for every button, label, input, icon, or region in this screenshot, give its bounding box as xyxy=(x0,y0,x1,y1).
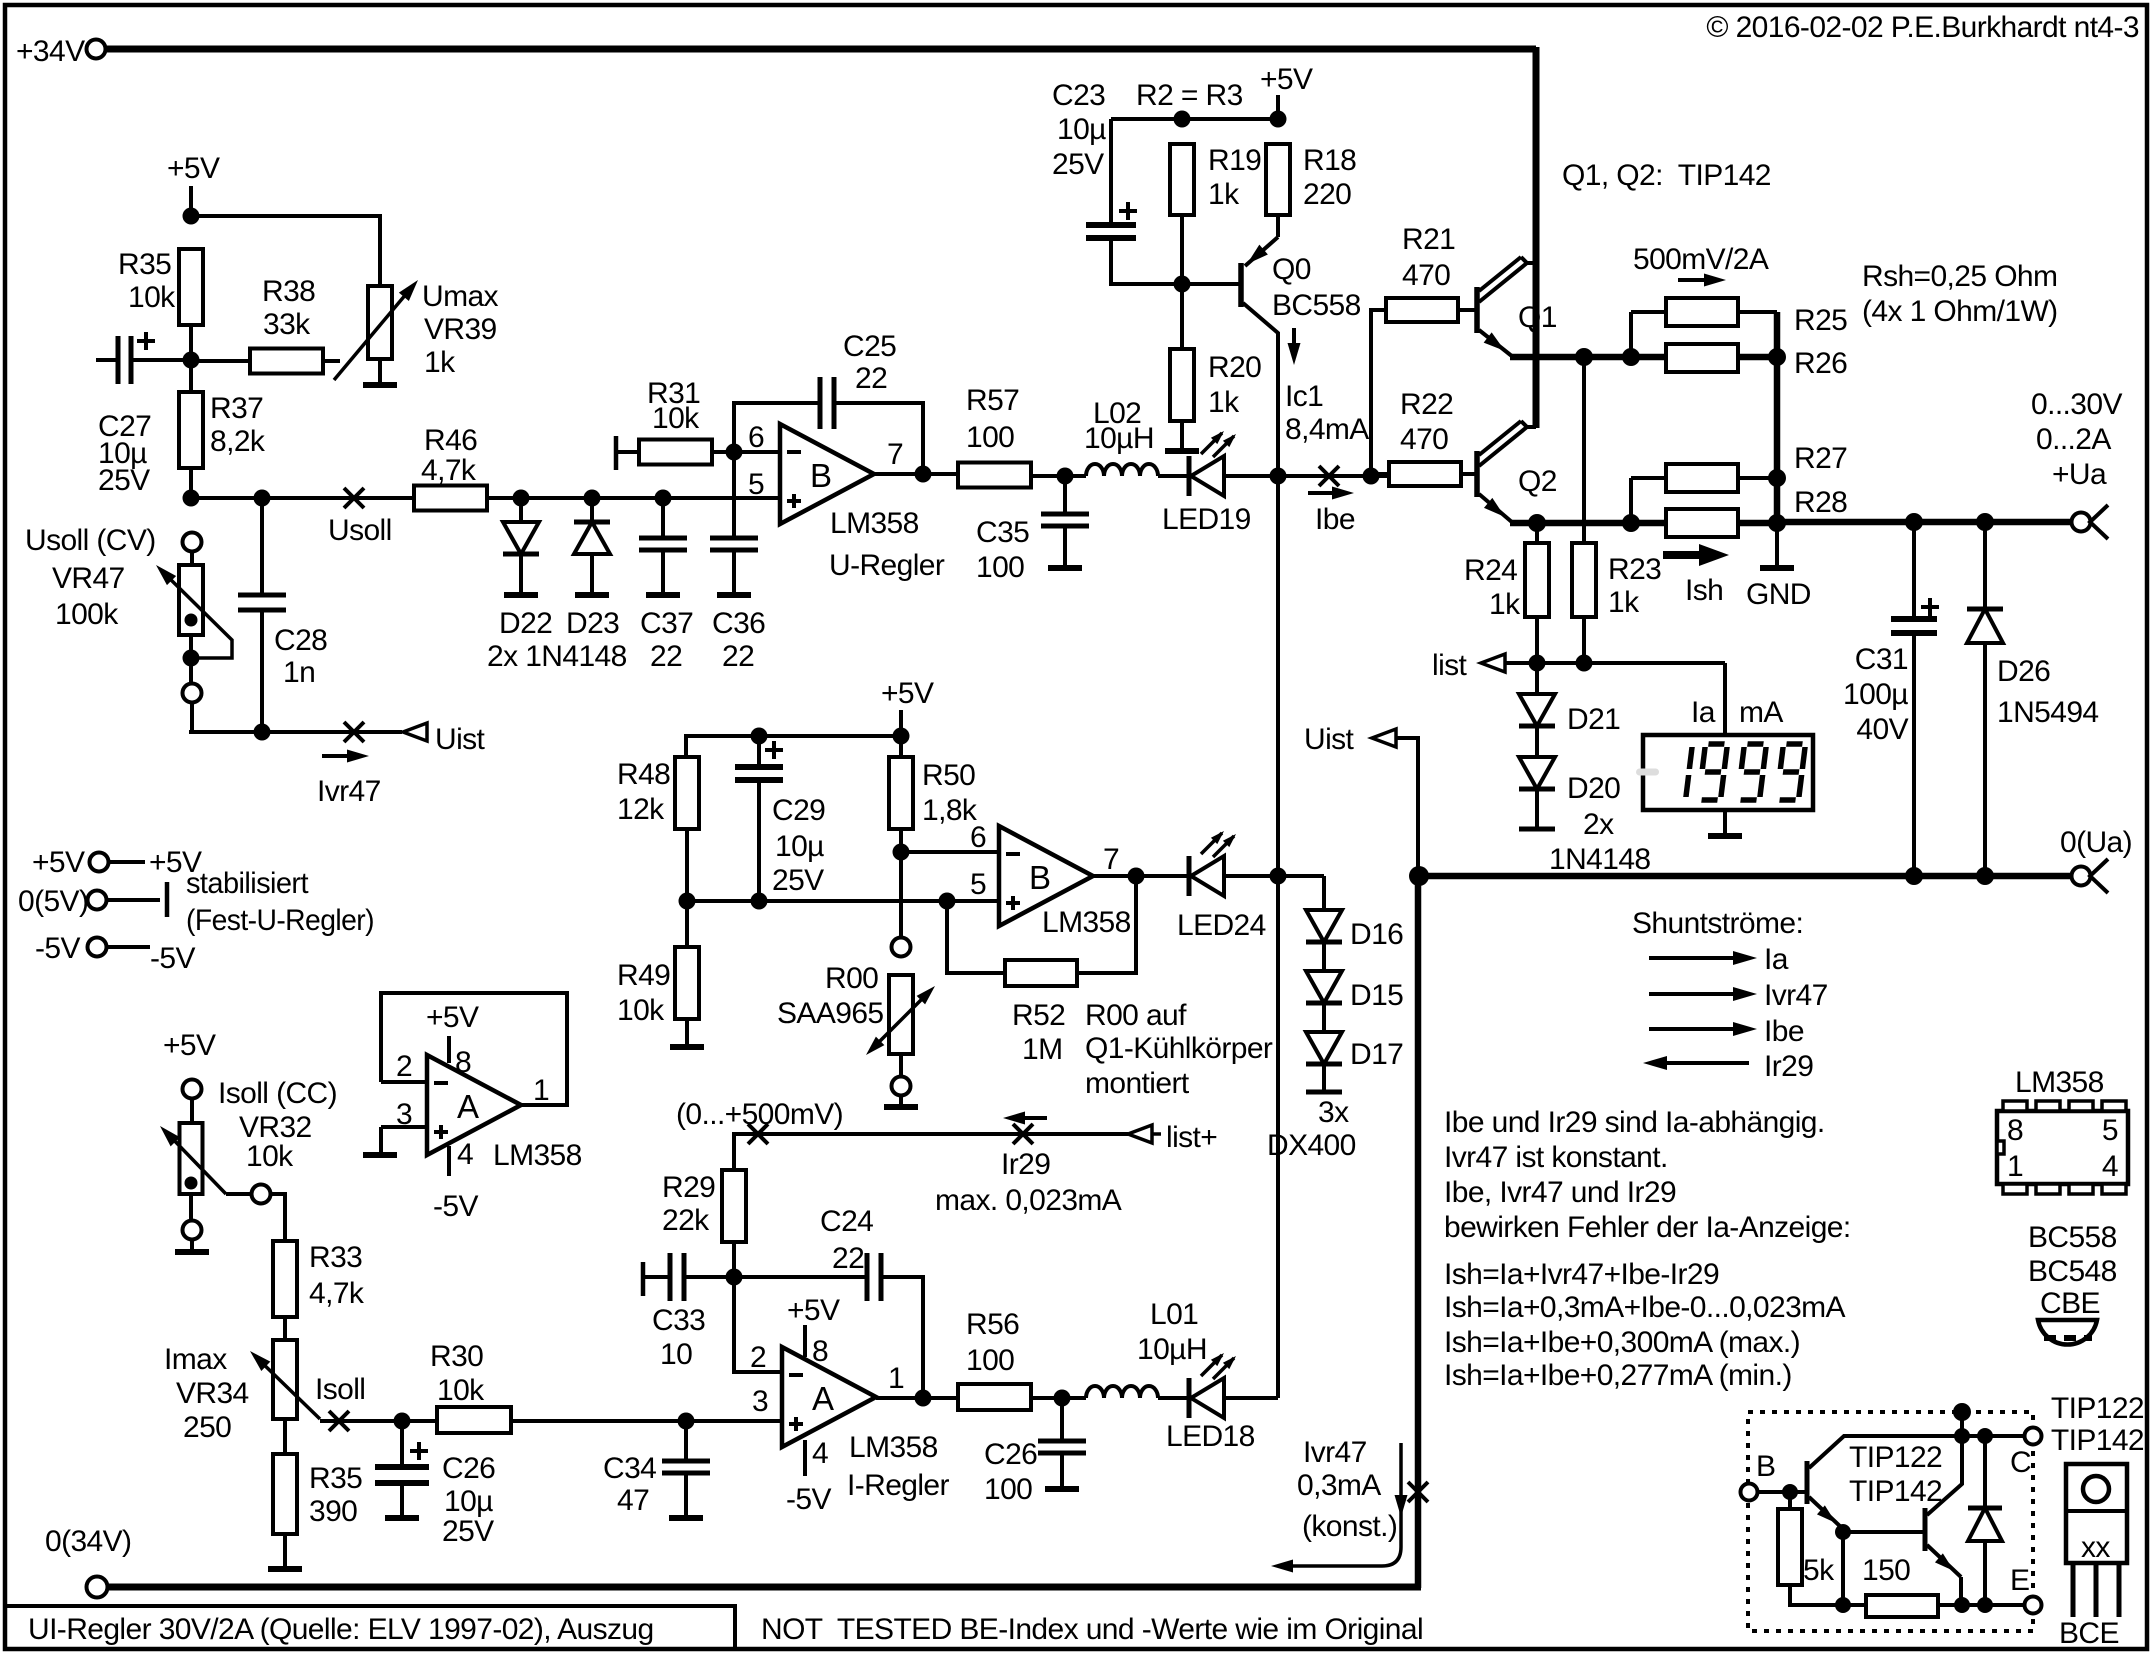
svg-text:100k: 100k xyxy=(55,598,119,631)
capacitor C29 xyxy=(757,736,761,767)
wire opamp out xyxy=(874,472,958,476)
node dot list R23 xyxy=(1576,655,1593,672)
node dot pin7 lower xyxy=(1128,868,1145,885)
svg-text:C34: C34 xyxy=(603,1452,656,1485)
resistor R31 xyxy=(639,440,712,465)
resistor R28 xyxy=(1666,509,1738,537)
wire R31 to pin6 xyxy=(712,450,780,454)
node dot pin1 xyxy=(915,1390,932,1407)
svg-text:B: B xyxy=(1756,1450,1775,1483)
svg-text:mA: mA xyxy=(1739,696,1783,729)
svg-text:1k: 1k xyxy=(1208,178,1240,211)
svg-text:C36: C36 xyxy=(712,607,765,640)
svg-text:8: 8 xyxy=(455,1046,471,1079)
svg-text:5: 5 xyxy=(970,868,986,901)
svg-text:D20: D20 xyxy=(1567,772,1620,805)
C33 terminal bar xyxy=(641,1262,646,1296)
resistor R35 390 xyxy=(273,1454,297,1534)
svg-text:C37: C37 xyxy=(640,607,693,640)
svg-text:Q0: Q0 xyxy=(1272,253,1311,286)
node dot D23 xyxy=(584,490,601,507)
node dot D26 top xyxy=(1976,513,1994,531)
svg-text:25V: 25V xyxy=(98,464,150,497)
svg-text:100: 100 xyxy=(984,1473,1032,1506)
node dot D21 top xyxy=(1529,655,1546,672)
svg-text:Usoll: Usoll xyxy=(328,514,392,547)
svg-text:10k: 10k xyxy=(437,1374,485,1407)
ground C26 lower xyxy=(385,1515,419,1521)
svg-text:LM358: LM358 xyxy=(493,1139,582,1172)
svg-text:BC558: BC558 xyxy=(1272,289,1361,322)
legend arrow Ivr47 xyxy=(1649,992,1744,996)
node dot +5V R35 xyxy=(183,208,200,225)
svg-text:Ic1: Ic1 xyxy=(1285,380,1323,413)
wire VR47 to Uist bus xyxy=(190,703,194,732)
wire R26 leads xyxy=(1738,356,1777,360)
node dot C34 xyxy=(678,1413,695,1430)
svg-text:Usoll (CV): Usoll (CV) xyxy=(25,524,156,557)
svg-text:3x: 3x xyxy=(1318,1096,1349,1129)
svg-text:Ivr47: Ivr47 xyxy=(1764,979,1828,1012)
diode D26 xyxy=(1983,522,1987,609)
svg-text:+5V: +5V xyxy=(32,846,85,879)
terminal bar D17 xyxy=(1306,1090,1342,1095)
svg-text:10µH: 10µH xyxy=(1137,1333,1207,1366)
ground C36 xyxy=(717,592,751,598)
svg-text:R27: R27 xyxy=(1794,442,1847,475)
wire Q2 emitter bus thick xyxy=(1510,520,1777,527)
svg-text:7: 7 xyxy=(1103,843,1119,876)
svg-text:R30: R30 xyxy=(430,1340,483,1373)
wire R46 to D22 D23 C37 C36 node xyxy=(487,496,734,500)
capacitor C34 plates xyxy=(662,1459,710,1464)
svg-text:R56: R56 xyxy=(966,1308,1019,1341)
svg-text:100µ: 100µ xyxy=(1843,678,1908,711)
svg-text:1N5494: 1N5494 xyxy=(1997,696,2099,729)
svg-text:+Ua: +Ua xyxy=(2052,458,2107,491)
svg-text:C23: C23 xyxy=(1052,79,1105,112)
svg-text:D16: D16 xyxy=(1350,918,1403,951)
R31 left terminal bar xyxy=(614,436,619,470)
wire R57 to L02 xyxy=(1031,474,1086,478)
wire R56 to L01 xyxy=(1031,1396,1086,1400)
svg-text:Ibe: Ibe xyxy=(1315,503,1355,536)
arrow Ivr47 konst xyxy=(1280,1443,1401,1566)
capacitor C25 plates xyxy=(818,377,823,429)
diode D21 xyxy=(1535,663,1539,694)
Q2 collector double line xyxy=(1479,421,1521,455)
resistor 5k xyxy=(1788,1492,1792,1509)
node dot T2 emitter xyxy=(1954,1597,1970,1613)
potentiometer VR32 body xyxy=(180,1123,203,1194)
terminal 0(Ua) xyxy=(2072,867,2091,886)
feedback R52 xyxy=(947,901,1005,973)
svg-text:C25: C25 xyxy=(843,330,896,363)
R00 double arrow xyxy=(872,992,929,1049)
legend arrow Ir29 xyxy=(1656,1061,1749,1065)
open arrow Uist left xyxy=(403,723,427,741)
plus C26 lower xyxy=(410,1449,428,1453)
svg-text:+5V: +5V xyxy=(163,1029,216,1062)
node dot D26 bottom xyxy=(1976,867,1994,885)
svg-text:0...30V: 0...30V xyxy=(2031,388,2122,421)
GND stub xyxy=(1775,523,1779,566)
svg-text:-5V: -5V xyxy=(786,1483,831,1516)
ground VR39 xyxy=(363,382,397,388)
svg-text:VR34: VR34 xyxy=(176,1377,249,1410)
svg-text:R50: R50 xyxy=(922,759,975,792)
svg-text:Ir29: Ir29 xyxy=(1001,1148,1050,1181)
arrow 500mV/2A xyxy=(1678,278,1717,282)
wire R20 to ground xyxy=(1180,421,1184,449)
svg-text:LED24: LED24 xyxy=(1177,909,1266,942)
wire to Uist arrow xyxy=(262,730,402,734)
svg-text:25V: 25V xyxy=(1052,148,1104,181)
ground D22 xyxy=(504,592,538,598)
svg-text:6: 6 xyxy=(748,421,764,454)
svg-text:LM358: LM358 xyxy=(849,1431,938,1464)
wire Q1 emitter bus thick xyxy=(1510,354,1777,361)
wire R00 bottom xyxy=(899,1054,903,1076)
Q0 emitter arrow xyxy=(1247,245,1268,264)
wire node to R38 xyxy=(191,359,250,363)
svg-text:0(Ua): 0(Ua) xyxy=(2060,826,2132,859)
wire R24 bottom xyxy=(1535,617,1539,663)
legend arrow Ibe xyxy=(1649,1027,1744,1031)
svg-text:Ish=Ia+Ibe+0,300mA (max.): Ish=Ia+Ibe+0,300mA (max.) xyxy=(1444,1326,1800,1359)
TO-92 case xyxy=(2038,1320,2097,1345)
diode D20 symbol xyxy=(1519,757,1555,789)
x-mark Uist xyxy=(344,722,364,742)
capacitor C37 plates xyxy=(639,536,687,541)
svg-text:R23: R23 xyxy=(1608,553,1661,586)
svg-text:100: 100 xyxy=(966,1344,1014,1377)
svg-text:470: 470 xyxy=(1402,259,1450,292)
wire +5V stub top xyxy=(1276,95,1280,119)
wire Uist bus lower-left xyxy=(191,730,262,734)
wire C rail xyxy=(1962,1434,2024,1438)
svg-text:R52: R52 xyxy=(1012,999,1065,1032)
svg-text:(0...+500mV): (0...+500mV) xyxy=(676,1098,843,1131)
svg-text:+5V: +5V xyxy=(881,677,934,710)
node dot R29 C33 C24 pin2 xyxy=(726,1269,743,1286)
svg-text:5: 5 xyxy=(748,468,764,501)
T1 collector xyxy=(1809,1436,1962,1468)
arrow Ish thick xyxy=(1663,551,1700,559)
plus C27 xyxy=(137,339,155,343)
wire LED18 to Uist column xyxy=(1224,1396,1278,1400)
svg-text:R28: R28 xyxy=(1794,486,1847,519)
terminal 0(34V) xyxy=(87,1577,108,1598)
node dot T1 emitter xyxy=(1835,1524,1851,1540)
svg-text:7: 7 xyxy=(887,438,903,471)
diode D16 symbol xyxy=(1306,910,1342,942)
svg-text:22: 22 xyxy=(832,1242,864,1275)
svg-text:25V: 25V xyxy=(442,1515,494,1548)
capacitor C28 xyxy=(260,498,264,595)
terminal VR32 wiper xyxy=(252,1185,271,1204)
svg-text:40V: 40V xyxy=(1856,713,1908,746)
wire R33 to VR34 xyxy=(283,1317,287,1340)
Q1 collector double line xyxy=(1479,257,1521,291)
wire R21 to Q1 base xyxy=(1458,308,1477,312)
wire R19 to base node xyxy=(1180,215,1184,284)
terminal R00 top xyxy=(892,938,911,957)
svg-text:Uist: Uist xyxy=(1304,723,1355,756)
svg-text:1k: 1k xyxy=(1608,586,1640,619)
svg-text:-5V: -5V xyxy=(35,932,80,965)
svg-text:100: 100 xyxy=(976,551,1024,584)
svg-text:Isoll (CC): Isoll (CC) xyxy=(218,1077,337,1110)
svg-text:+5V: +5V xyxy=(787,1294,840,1327)
svg-text:D15: D15 xyxy=(1350,979,1403,1012)
legend pin8 stub xyxy=(447,1036,451,1063)
svg-text:1: 1 xyxy=(533,1074,549,1107)
svg-text:0...2A: 0...2A xyxy=(2036,423,2111,456)
diode D17 symbol xyxy=(1306,1032,1342,1064)
ground C34 xyxy=(669,1515,703,1521)
resistor R56 xyxy=(958,1384,1031,1410)
capacitor C36 plates xyxy=(710,536,758,541)
wire R30 to opamp A xyxy=(511,1419,780,1423)
svg-text:8,4mA: 8,4mA xyxy=(1285,413,1369,446)
svg-text:BC558: BC558 xyxy=(2028,1221,2117,1254)
node dot C37 xyxy=(655,490,672,507)
VR47 wiper dot xyxy=(185,614,198,627)
svg-text:(konst.): (konst.) xyxy=(1302,1510,1397,1543)
svg-text:1n: 1n xyxy=(283,656,315,689)
svg-text:B: B xyxy=(1029,859,1050,896)
svg-text:Rsh=0,25 Ohm: Rsh=0,25 Ohm xyxy=(1862,260,2057,293)
plus C29 xyxy=(765,748,783,752)
svg-text:500mV/2A: 500mV/2A xyxy=(1633,243,1769,276)
resistor R27 xyxy=(1666,464,1738,492)
svg-text:R22: R22 xyxy=(1400,388,1453,421)
TO-220 body xyxy=(2066,1464,2127,1563)
svg-text:BC548: BC548 xyxy=(2028,1255,2117,1288)
shunt right thick vertical xyxy=(1774,312,1781,522)
VR34 wiper arrow Imax xyxy=(256,1357,320,1419)
0V tick bar xyxy=(165,882,170,917)
svg-text:C33: C33 xyxy=(652,1304,705,1337)
svg-text:R2 = R3: R2 = R3 xyxy=(1136,79,1243,112)
TO-220 divider xyxy=(2066,1509,2127,1513)
node dot pin6 xyxy=(726,444,743,461)
DIP pins bottom xyxy=(2003,1184,2027,1194)
node dot LED24 Uist column xyxy=(1270,868,1287,885)
DVM ground stub xyxy=(1723,810,1727,834)
wire R48 to bus xyxy=(685,829,689,901)
ground GND symbol xyxy=(1760,565,1794,571)
svg-text:Umax: Umax xyxy=(422,280,499,313)
node dot R35/C27/R37/R38 xyxy=(183,352,200,369)
svg-text:Ish=Ia+Ibe+0,277mA (min.): Ish=Ia+Ibe+0,277mA (min.) xyxy=(1444,1359,1792,1392)
arrow Ivr47 lower-left xyxy=(322,754,360,758)
wire R22 to Q2 base xyxy=(1461,472,1477,476)
svg-text:10µ: 10µ xyxy=(775,830,824,863)
capacitor C31 xyxy=(1912,522,1916,619)
wire Ibe node to R22 xyxy=(1371,472,1389,476)
resistor R29 xyxy=(722,1170,746,1242)
diode D26 symbol xyxy=(1967,607,2003,612)
arrow Ic1 xyxy=(1292,328,1296,356)
DVM display box xyxy=(1643,735,1813,810)
T2 base bar xyxy=(1923,1508,1928,1551)
x-mark Ir29 wire xyxy=(1013,1124,1033,1144)
resistor R33 xyxy=(273,1241,297,1317)
ground C37 xyxy=(646,592,680,598)
svg-text:LM358: LM358 xyxy=(830,507,919,540)
svg-text:TIP122: TIP122 xyxy=(2051,1392,2144,1425)
DVM digits 1999 xyxy=(1686,747,1692,797)
wire +5V bus mid xyxy=(686,734,901,738)
capacitor C28 plates xyxy=(238,593,286,598)
Q1 emitter xyxy=(1479,330,1513,357)
svg-text:R48: R48 xyxy=(617,758,670,791)
svg-text:R57: R57 xyxy=(966,384,1019,417)
svg-text:C: C xyxy=(2010,1446,2031,1479)
resistor R35 xyxy=(179,249,203,325)
svg-text:Ish=Ia+0,3mA+Ibe-0...0,023mA: Ish=Ia+0,3mA+Ibe-0...0,023mA xyxy=(1444,1291,1846,1324)
node dot R23 top feed xyxy=(1575,348,1593,366)
svg-text:SAA965: SAA965 xyxy=(777,997,883,1030)
capacitor C34 xyxy=(684,1421,688,1461)
node dot B xyxy=(1782,1484,1798,1500)
arrow Ibe xyxy=(1308,491,1345,495)
wire R2=R3 bus xyxy=(1111,117,1278,121)
svg-text:R00: R00 xyxy=(825,962,878,995)
svg-text:1: 1 xyxy=(888,1362,904,1395)
svg-text:100: 100 xyxy=(966,421,1014,454)
wire list bus xyxy=(1503,661,1725,665)
wire wiper to R33 xyxy=(271,1194,285,1241)
svg-text:I-Regler: I-Regler xyxy=(847,1469,950,1502)
svg-text:C31: C31 xyxy=(1855,643,1908,676)
svg-text:Shuntströme:: Shuntströme: xyxy=(1632,907,1803,940)
svg-text:D22: D22 xyxy=(499,607,552,640)
pin8 stub xyxy=(803,1325,807,1357)
svg-text:10k: 10k xyxy=(128,281,176,314)
feedback wire C25 xyxy=(734,403,820,452)
wire DVM feed xyxy=(1723,663,1727,735)
svg-text:Ish=Ia+Ivr47+Ibe-Ir29: Ish=Ia+Ivr47+Ibe-Ir29 xyxy=(1444,1258,1719,1291)
svg-text:R35: R35 xyxy=(118,248,171,281)
svg-text:Ia: Ia xyxy=(1691,696,1716,729)
svg-text:Q1-Kühlkörper: Q1-Kühlkörper xyxy=(1085,1032,1273,1065)
x-mark on return xyxy=(1408,1482,1428,1502)
svg-text:R49: R49 xyxy=(617,959,670,992)
svg-text:+34V: +34V xyxy=(16,35,85,68)
TIP dashed box xyxy=(1748,1412,2033,1631)
svg-text:2x: 2x xyxy=(1583,808,1614,841)
ground DVM xyxy=(1708,833,1742,839)
node dot R28 right xyxy=(1768,514,1786,532)
resistor R21 xyxy=(1386,298,1458,322)
svg-text:470: 470 xyxy=(1400,423,1448,456)
wire R38 to VR39 wiper xyxy=(321,359,340,363)
wire 150 right xyxy=(1938,1603,2024,1607)
arrow Ir29 mid xyxy=(1014,1116,1047,1120)
resistor R26 xyxy=(1666,344,1738,372)
ground C35 xyxy=(1048,565,1082,571)
node dot pin7 xyxy=(915,466,932,483)
node dot 0Ua left xyxy=(1409,866,1429,886)
node dot C28 bottom xyxy=(254,724,271,741)
wire LED19 to Ibe node xyxy=(1224,474,1389,478)
node dot diode top xyxy=(1977,1428,1993,1444)
feedback wire C25 right xyxy=(834,403,923,474)
resistor 150 xyxy=(1866,1595,1938,1617)
terminal E xyxy=(2025,1597,2042,1614)
wire R27 leads xyxy=(1631,476,1666,480)
svg-text:390: 390 xyxy=(309,1495,357,1528)
svg-text:2: 2 xyxy=(396,1050,412,1083)
node dot C28 top xyxy=(254,490,271,507)
DIP notch xyxy=(1997,1141,2004,1154)
wire R37 to Usoll bus xyxy=(189,468,193,498)
node dot R19 top xyxy=(1174,111,1191,128)
svg-text:R21: R21 xyxy=(1402,223,1455,256)
svg-text:A: A xyxy=(812,1380,834,1417)
svg-text:0(34V): 0(34V) xyxy=(45,1525,131,1558)
legend op-amp A xyxy=(427,1055,521,1155)
svg-text:B: B xyxy=(810,457,831,494)
svg-text:NOT TESTED BE-Index und -Wert: NOT TESTED BE-Index und -Werte wie im Or… xyxy=(761,1613,1423,1646)
ground R49 xyxy=(670,1044,704,1050)
diode TIP internal xyxy=(1983,1436,1987,1508)
capacitor C35 xyxy=(1063,476,1067,514)
svg-text:Ir29: Ir29 xyxy=(1764,1050,1813,1083)
VR47 wiper arrow xyxy=(162,571,232,652)
diode D21 symbol xyxy=(1519,694,1555,726)
svg-text:-5V: -5V xyxy=(433,1190,478,1223)
LM358 DIP body xyxy=(1997,1111,2128,1184)
diode D22 symbol xyxy=(503,522,539,554)
potentiometer VR34 body xyxy=(273,1340,297,1419)
wire R35 to node xyxy=(189,325,193,360)
capacitor C29 plates xyxy=(735,764,783,770)
wire +Ua bus thick xyxy=(1777,519,2072,526)
legend ground stub xyxy=(379,1127,383,1153)
wire R23 bottom xyxy=(1582,617,1586,663)
svg-text:Ibe und Ir29 sind Ia-abhängig.: Ibe und Ir29 sind Ia-abhängig. xyxy=(1444,1106,1825,1139)
VR32 wiper wire to terminal xyxy=(226,1192,251,1196)
wire R48 top xyxy=(684,734,688,757)
TO-220 hole xyxy=(2083,1476,2109,1502)
diode D15 symbol xyxy=(1306,971,1342,1003)
svg-text:C24: C24 xyxy=(820,1205,873,1238)
svg-text:C28: C28 xyxy=(274,624,327,657)
wire opamp A out xyxy=(876,1396,958,1400)
wire R00 vertical xyxy=(899,852,903,937)
wire R28 leads xyxy=(1738,521,1777,525)
svg-text:C29: C29 xyxy=(772,794,825,827)
node dot R48 bottom xyxy=(679,893,696,910)
transistor Q1 base bar xyxy=(1474,287,1480,333)
wire pin2 xyxy=(734,1277,782,1372)
wire LED24 out xyxy=(1224,874,1324,878)
potentiometer VR47 body xyxy=(179,565,203,635)
x-mark Usoll xyxy=(344,488,364,508)
x-mark Ibe xyxy=(1319,466,1339,486)
svg-text:Q1: Q1 xyxy=(1518,301,1557,334)
svg-text:(Fest-U-Regler): (Fest-U-Regler) xyxy=(186,904,374,937)
svg-text:R25: R25 xyxy=(1794,304,1847,337)
wire to VR39 top xyxy=(191,216,380,286)
ground R20 xyxy=(1165,448,1199,454)
svg-text:0,3mA: 0,3mA xyxy=(1297,1469,1381,1502)
open arrow list+ xyxy=(1128,1125,1152,1143)
